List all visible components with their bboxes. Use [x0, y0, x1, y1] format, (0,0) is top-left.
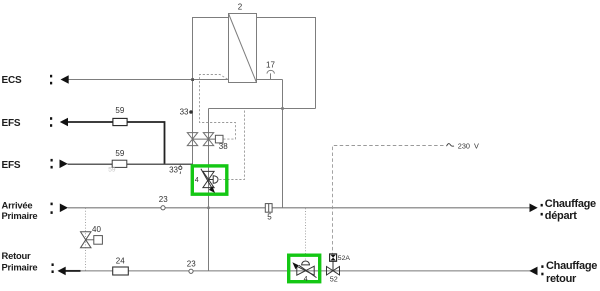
wire right riser — [282, 80, 284, 208]
svg-text:4: 4 — [304, 274, 308, 283]
port Retour Primaire — [2, 250, 66, 275]
port ECS — [2, 75, 69, 86]
dotted sensor line to valve 4 (lower green box) — [305, 208, 307, 259]
svg-text:23: 23 — [187, 259, 196, 268]
svg-text:ECS: ECS — [2, 75, 22, 86]
valve 4 lower (thermostatic valve in green frame) — [292, 261, 316, 283]
svg-text:départ: départ — [545, 210, 577, 222]
svg-text:Primaire: Primaire — [2, 261, 38, 272]
green frame 2 — [289, 255, 320, 282]
valve 33 right (on center riser) — [203, 133, 213, 146]
junction node mid line / right riser — [281, 107, 284, 110]
junction node supply line / center riser — [207, 207, 209, 209]
wire ECS line — [69, 79, 283, 81]
svg-text:59: 59 — [115, 106, 124, 115]
svg-text:Retour: Retour — [2, 250, 32, 261]
junction node ECS / cold riser — [191, 78, 194, 81]
svg-text:52A: 52A — [338, 255, 351, 262]
svg-text:52: 52 — [330, 274, 338, 283]
port Chauffage retour — [529, 260, 597, 285]
svg-text:EFS: EFS — [2, 118, 21, 129]
port Arrivee Primaire — [2, 199, 69, 221]
wire valve cross link to bulb 38 — [193, 138, 216, 140]
wire primary return line thick tail at arrow — [66, 270, 81, 272]
svg-text:230 V: 230 V — [458, 141, 479, 150]
svg-text:24: 24 — [116, 256, 125, 265]
svg-text:Chauffage: Chauffage — [546, 260, 597, 272]
wire EFS2 line — [68, 163, 193, 165]
svg-text:EFS: EFS — [2, 160, 21, 171]
dotted bypass line through valve 40 — [85, 208, 87, 271]
capillary dashed line from heat exchanger to bulb 38 — [200, 75, 236, 140]
svg-text:23: 23 — [159, 195, 168, 204]
svg-text:17: 17 — [266, 61, 275, 70]
port Chauffage depart — [530, 198, 597, 222]
svg-text:4: 4 — [195, 175, 199, 184]
wire primary return line — [81, 270, 531, 272]
node 23 on supply line — [159, 195, 168, 210]
wire center riser — [208, 109, 210, 271]
valve 33 left (on cold riser) — [187, 133, 197, 146]
vent 17 — [266, 61, 275, 80]
svg-text:59: 59 — [115, 149, 124, 158]
svg-text:Primaire: Primaire — [2, 210, 38, 221]
dashed 230V electric line to valve 52A — [333, 146, 444, 254]
wire outer loop (left edge, top, right edge) — [193, 18, 316, 165]
wire mid horizontal line — [209, 108, 316, 110]
heat exchanger 2 — [229, 3, 257, 83]
valve 52 with solenoid 52A — [327, 254, 351, 284]
svg-text:33: 33 — [180, 108, 189, 117]
port EFS 2 — [2, 159, 68, 171]
node 33 on cold riser — [180, 108, 193, 117]
svg-text:5: 5 — [267, 213, 272, 222]
svg-text:59: 59 — [108, 166, 116, 173]
label 230 V with sine symbol — [447, 141, 480, 150]
node 33 on EFS2 line — [169, 164, 182, 175]
svg-text:33: 33 — [169, 166, 178, 175]
svg-text:2: 2 — [238, 3, 243, 12]
svg-text:40: 40 — [92, 225, 101, 234]
dashed control line to valve 4 (upper green box) — [219, 111, 245, 180]
component 24 — [113, 256, 129, 275]
valve 4 upper (3-way control valve in green frame) — [195, 169, 218, 193]
component 59 upper — [113, 106, 127, 125]
svg-text:Chauffage: Chauffage — [545, 198, 596, 210]
green frame 1 — [192, 166, 227, 194]
port EFS 1 — [2, 117, 69, 129]
svg-text:38: 38 — [219, 142, 228, 151]
svg-text:retour: retour — [546, 273, 577, 285]
node 23 on return line — [187, 259, 196, 273]
component 5 on supply line — [265, 204, 272, 222]
valve 40 with bulb — [81, 225, 103, 248]
svg-text:Arrivée: Arrivée — [2, 199, 33, 210]
component 59 lower — [108, 149, 126, 173]
bulb 38 — [215, 135, 228, 151]
wire EFS1 line — [68, 122, 165, 164]
wire primary supply line Arrivee to Chauffage depart — [68, 207, 530, 209]
